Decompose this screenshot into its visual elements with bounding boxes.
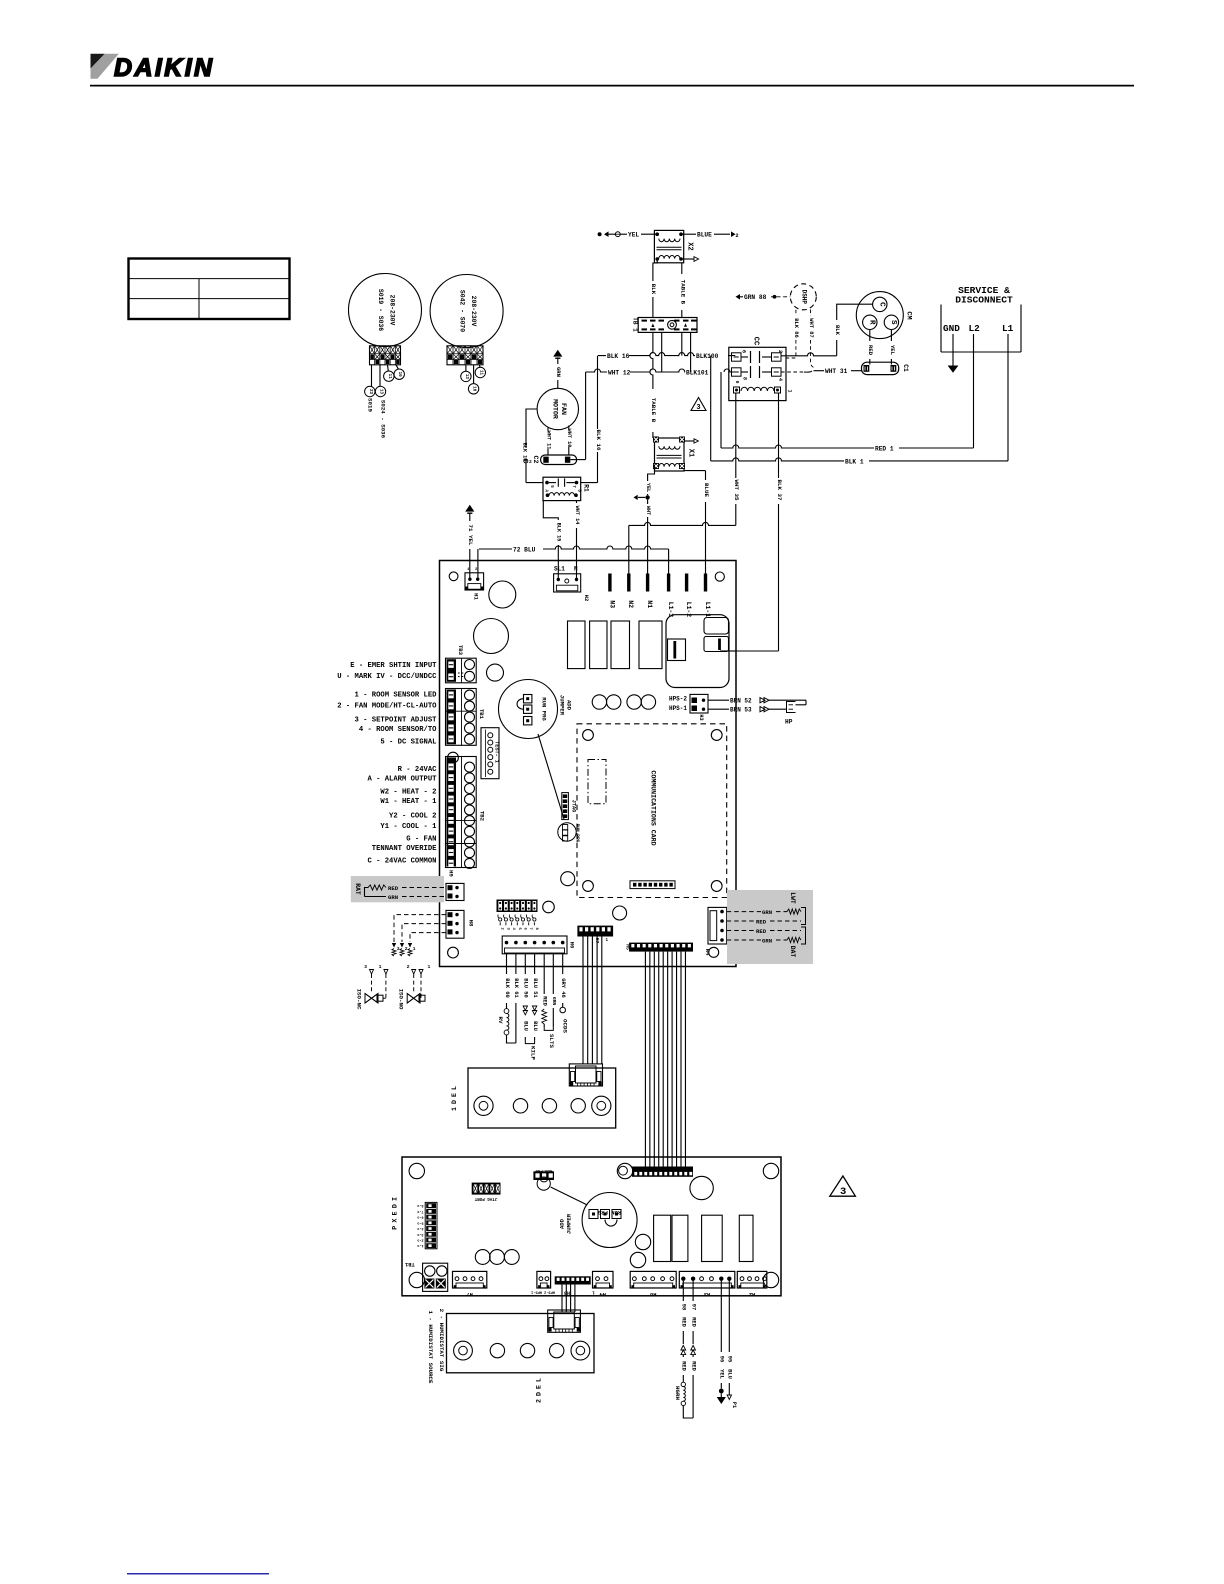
svg-text:1: 1 bbox=[428, 964, 431, 970]
H6 wire 7 GRY 46 to OCDS bbox=[562, 954, 564, 974]
svg-text:GRN 88: GRN 88 bbox=[744, 294, 767, 301]
svg-text:X2: X2 bbox=[686, 242, 694, 250]
connector H5 ribbon header bbox=[629, 943, 693, 952]
svg-text:2-o: 2-o bbox=[417, 1238, 423, 1242]
H6 wire 2 BLK 61 bbox=[515, 954, 517, 974]
svg-text:6-o: 6-o bbox=[417, 1215, 423, 1219]
IDEXP connector H5 header bbox=[555, 1276, 591, 1284]
footer link line bbox=[127, 1573, 269, 1575]
LED1 lamp holes bbox=[474, 1096, 493, 1115]
svg-text:H2: H2 bbox=[749, 1291, 755, 1297]
svg-text:4: 4 bbox=[511, 928, 515, 931]
board large holes bbox=[489, 581, 516, 608]
pointer line to jumper bbox=[538, 734, 564, 819]
RUN PRG jumper (main board) bbox=[499, 680, 558, 739]
communications card dashed outline bbox=[577, 724, 727, 898]
svg-text:DSHP: DSHP bbox=[800, 290, 807, 305]
relay K3 bbox=[611, 621, 630, 669]
svg-text:ISO-NO: ISO-NO bbox=[398, 989, 405, 1010]
svg-text:COMMUNICATIONS CARD: COMMUNICATIONS CARD bbox=[650, 770, 657, 845]
relay K1 bbox=[568, 621, 586, 669]
svg-text:SLTS: SLTS bbox=[548, 1034, 555, 1048]
connector H1 bbox=[465, 573, 484, 590]
svg-text:8-o: 8-o bbox=[417, 1203, 423, 1207]
compressor motor 208-230V S019-S036 bbox=[349, 274, 422, 347]
svg-text:BLK: BLK bbox=[650, 284, 657, 295]
svg-text:H8: H8 bbox=[650, 1291, 656, 1297]
svg-text:D: D bbox=[392, 1204, 399, 1208]
LED1 display board bbox=[468, 1068, 616, 1128]
compressor 2 pigtail wires and ring terminals 13,11,10 bbox=[465, 365, 467, 372]
svg-text:TABLE B: TABLE B bbox=[650, 398, 657, 423]
wire BLK 37 bbox=[778, 393, 780, 651]
svg-text:Y1 - COOL - 1: Y1 - COOL - 1 bbox=[380, 823, 437, 831]
svg-text:WHT 31: WHT 31 bbox=[825, 368, 848, 375]
svg-text:2: 2 bbox=[405, 946, 408, 952]
svg-text:B: B bbox=[576, 490, 580, 493]
header rule bbox=[90, 85, 1134, 87]
svg-text:E - EMER SHTIN INPUT: E - EMER SHTIN INPUT bbox=[350, 662, 437, 670]
svg-text:7: 7 bbox=[528, 928, 532, 931]
svg-text:LWT: LWT bbox=[789, 892, 796, 904]
IDEXP connector H4 bbox=[593, 1271, 614, 1288]
svg-text:3: 3 bbox=[505, 928, 509, 931]
svg-text:2 - FAN MODE/HT-CL-AUTO: 2 - FAN MODE/HT-CL-AUTO bbox=[337, 703, 437, 711]
svg-text:N2: N2 bbox=[627, 600, 634, 608]
svg-text:RED: RED bbox=[690, 1317, 696, 1327]
svg-text:H4: H4 bbox=[599, 1291, 606, 1297]
svg-text:H8: H8 bbox=[467, 920, 474, 927]
svg-text:7: 7 bbox=[571, 485, 575, 488]
wire TABLE B X2 to TB1 bbox=[681, 263, 683, 274]
svg-text:BLK101: BLK101 bbox=[686, 370, 709, 377]
svg-text:G - FAN: G - FAN bbox=[406, 835, 436, 843]
LWT / DAT highlighted sensors bbox=[727, 890, 813, 964]
compressor 2 terminal block bbox=[447, 346, 483, 365]
svg-text:RED: RED bbox=[756, 928, 767, 935]
IDEXP relay K1 bbox=[654, 1215, 671, 1261]
svg-text:DAT: DAT bbox=[789, 946, 796, 958]
wire BLK compressor motor C to contactor bbox=[837, 304, 873, 320]
svg-text:CC: CC bbox=[752, 337, 760, 345]
svg-text:HGRH: HGRH bbox=[674, 1386, 681, 1400]
svg-text:W2 - HEAT - 2: W2 - HEAT - 2 bbox=[380, 788, 436, 796]
svg-text:YEL: YEL bbox=[889, 345, 896, 356]
svg-text:HPS-2 HPS-1: HPS-2 HPS-1 bbox=[531, 1290, 555, 1294]
wire BLK X2 to TB1 bbox=[653, 259, 657, 281]
IDEXP JTAG PORT bbox=[472, 1183, 501, 1195]
svg-text:L: L bbox=[535, 1378, 542, 1382]
svg-text:BLK 61: BLK 61 bbox=[513, 978, 519, 997]
svg-text:8: 8 bbox=[742, 377, 748, 380]
svg-text:CM: CM bbox=[905, 311, 913, 319]
IDEXP connector H3 bbox=[679, 1271, 735, 1288]
svg-text:H5: H5 bbox=[625, 944, 631, 950]
svg-text:5: 5 bbox=[517, 928, 521, 931]
svg-text:E: E bbox=[535, 1385, 542, 1389]
wire BLK 1 bbox=[711, 458, 1008, 461]
IDEXP relay K2 bbox=[672, 1215, 688, 1261]
TB1 bottom wires bbox=[650, 332, 653, 438]
wire L2 to RED 1 bbox=[973, 334, 975, 448]
svg-text:H4: H4 bbox=[704, 949, 711, 956]
ISO-NO contact bbox=[412, 970, 416, 975]
svg-text:4 - ROOM SENSOR/TO: 4 - ROOM SENSOR/TO bbox=[359, 726, 437, 734]
R1 pin7 to BLK16 vertical bbox=[581, 482, 598, 484]
svg-text:1-o: 1-o bbox=[417, 1243, 423, 1247]
svg-text:BLK 16: BLK 16 bbox=[595, 430, 602, 451]
svg-text:W1 - HEAT - 1: W1 - HEAT - 1 bbox=[380, 798, 437, 806]
IDEXP connector HPS bbox=[537, 1271, 551, 1288]
fan motor bbox=[537, 388, 578, 429]
svg-text:C1: C1 bbox=[902, 364, 909, 372]
svg-text:U - MARK IV - DCC/UNDCC: U - MARK IV - DCC/UNDCC bbox=[337, 673, 437, 681]
svg-text:RV: RV bbox=[497, 1017, 504, 1024]
main control board outline bbox=[440, 561, 737, 967]
svg-text:RUN PRG: RUN PRG bbox=[575, 824, 580, 843]
svg-text:RED: RED bbox=[867, 345, 874, 356]
svg-text:3: 3 bbox=[397, 946, 400, 952]
IDEXP relay K3 bbox=[702, 1215, 723, 1261]
svg-text:H9: H9 bbox=[448, 870, 455, 877]
connector H6 pin header bbox=[497, 900, 538, 913]
svg-text:DAIKIN: DAIKIN bbox=[114, 54, 215, 82]
svg-text:WHT 35: WHT 35 bbox=[733, 480, 740, 501]
svg-text:97: 97 bbox=[690, 1304, 696, 1310]
svg-text:2: 2 bbox=[736, 233, 739, 239]
svg-text:X: X bbox=[392, 1219, 399, 1223]
svg-text:TABLE B: TABLE B bbox=[679, 280, 686, 305]
H6 wire 4 BLU 51 bbox=[534, 954, 536, 974]
svg-text:BLU: BLU bbox=[532, 1021, 538, 1031]
svg-text:HPS-2: HPS-2 bbox=[669, 696, 687, 703]
svg-text:L2: L2 bbox=[969, 323, 981, 334]
small warning triangle 3 bbox=[691, 398, 706, 411]
svg-text:10: 10 bbox=[397, 372, 401, 378]
svg-text:JTAG PORT: JTAG PORT bbox=[474, 1196, 497, 1200]
svg-text:72 BLU: 72 BLU bbox=[513, 546, 536, 553]
revision table bbox=[129, 259, 290, 320]
relay K2 bbox=[590, 621, 607, 669]
RAT sensor highlighted bbox=[351, 876, 444, 902]
svg-text:N3: N3 bbox=[608, 600, 615, 608]
IDEXP connector H2 bbox=[737, 1271, 767, 1288]
connector H6 bbox=[502, 936, 567, 954]
transformer X2 bbox=[654, 230, 683, 262]
svg-text:23: 23 bbox=[368, 389, 372, 395]
warning triangle 3 bbox=[830, 1176, 856, 1196]
IDEXP left pin connector bbox=[425, 1202, 437, 1248]
svg-text:ISO-NC: ISO-NC bbox=[356, 989, 363, 1010]
svg-text:TB2: TB2 bbox=[479, 811, 486, 822]
wire WHT 31 to capacitor C1 bbox=[781, 371, 804, 373]
svg-text:3: 3 bbox=[364, 964, 367, 970]
compressor 1 terminal block bbox=[370, 346, 401, 365]
svg-text:HPS-1: HPS-1 bbox=[669, 705, 687, 712]
svg-text:R: R bbox=[867, 320, 875, 325]
svg-text:H3: H3 bbox=[698, 714, 704, 720]
svg-text:1: 1 bbox=[592, 1290, 595, 1294]
connector H4 bbox=[708, 907, 727, 944]
wire RED 97 bbox=[692, 1279, 694, 1301]
svg-text:L1: L1 bbox=[1002, 323, 1014, 334]
pressure switch DSHP bbox=[790, 284, 816, 310]
svg-text:JUMPER: JUMPER bbox=[566, 1213, 573, 1234]
H6 wire 3 BLU 50 bbox=[524, 954, 526, 974]
Daikin logo mark bbox=[91, 54, 105, 69]
comm card edge connector bbox=[630, 881, 675, 889]
svg-text:H6: H6 bbox=[569, 942, 576, 949]
svg-text:5 - DC SIGNAL: 5 - DC SIGNAL bbox=[380, 738, 436, 746]
wire BLK 16 rail bbox=[598, 353, 735, 356]
LED2 lamp holes bbox=[454, 1341, 473, 1360]
svg-text:I: I bbox=[392, 1197, 399, 1201]
wire RED R to C1 bbox=[869, 329, 871, 341]
ground symbol bbox=[952, 334, 954, 366]
line terminals N3 N2 N1 L1-3 L1-2 L1-1 bbox=[608, 574, 611, 592]
svg-text:N: N bbox=[574, 566, 578, 573]
wire 72 BLU rail bbox=[479, 546, 669, 549]
svg-text:BLK 16: BLK 16 bbox=[607, 353, 630, 360]
svg-text:BLU: BLU bbox=[727, 1369, 733, 1379]
svg-text:WHT 14: WHT 14 bbox=[574, 506, 580, 525]
svg-text:BLU 51: BLU 51 bbox=[532, 978, 538, 997]
arrow GRN 88 bbox=[736, 294, 741, 300]
svg-text:2: 2 bbox=[407, 964, 410, 970]
svg-text:98: 98 bbox=[681, 1304, 687, 1310]
svg-text:BLU 50: BLU 50 bbox=[523, 978, 529, 997]
LED2 connector bbox=[548, 1310, 581, 1332]
run capacitor C1 bbox=[862, 362, 899, 374]
H6 wire 6 GRN bbox=[552, 954, 554, 994]
svg-text:3: 3 bbox=[840, 1186, 846, 1198]
svg-text:S: S bbox=[889, 320, 897, 325]
wire BLK 16 vertical to R1 bbox=[597, 356, 599, 483]
svg-text:SL1: SL1 bbox=[554, 566, 565, 573]
svg-text:RUN PRG: RUN PRG bbox=[541, 697, 548, 721]
svg-text:S024 - S036: S024 - S036 bbox=[380, 400, 387, 439]
svg-text:GRN: GRN bbox=[555, 367, 562, 377]
svg-text:A: A bbox=[543, 490, 547, 493]
IDEXP relay K4 bbox=[739, 1215, 753, 1261]
svg-text:R1: R1 bbox=[582, 484, 589, 492]
svg-text:GND: GND bbox=[943, 323, 960, 334]
wire C2 to WHT 12 bbox=[570, 459, 585, 461]
wire WHT 87 dashed bbox=[810, 310, 812, 317]
svg-text:208-230V: 208-230V bbox=[389, 295, 396, 326]
wire BLK 13 fan to R1 bbox=[526, 409, 537, 448]
svg-text:2: 2 bbox=[500, 928, 504, 931]
svg-text:E: E bbox=[451, 1093, 458, 1097]
svg-text:P1: P1 bbox=[731, 1402, 737, 1408]
svg-text:1: 1 bbox=[379, 964, 382, 970]
svg-text:E: E bbox=[392, 1211, 399, 1215]
svg-text:2 - HUMIDISTAT SIG: 2 - HUMIDISTAT SIG bbox=[438, 1309, 445, 1372]
compressor motor 208-230V S042-S070 bbox=[430, 275, 503, 348]
board mounting holes bbox=[449, 572, 458, 581]
relay R1 bbox=[543, 477, 581, 500]
ribbon cable to IDEXP bbox=[644, 952, 646, 1167]
wire YEL 96 bbox=[720, 1279, 722, 1352]
svg-text:FAN: FAN bbox=[560, 403, 567, 415]
svg-text:7-o: 7-o bbox=[417, 1209, 423, 1213]
wire YEL S to C1 bbox=[890, 329, 892, 341]
svg-text:5: 5 bbox=[549, 485, 553, 488]
svg-text:YEL: YEL bbox=[645, 483, 651, 492]
svg-text:TB1: TB1 bbox=[478, 709, 485, 720]
svg-text:H1: H1 bbox=[473, 593, 480, 600]
svg-text:BLK 37: BLK 37 bbox=[776, 480, 783, 501]
transformer X1 bbox=[655, 438, 685, 471]
run capacitor C2 bbox=[541, 455, 577, 465]
compressor 1 pigtail wires and ring terminals 23,13,11,10 bbox=[371, 365, 373, 387]
svg-text:6: 6 bbox=[523, 928, 527, 931]
svg-text:96: 96 bbox=[719, 1356, 725, 1362]
svg-text:BLK 86: BLK 86 bbox=[793, 318, 799, 337]
IDEXP connector H8 bbox=[630, 1271, 676, 1288]
svg-text:H7: H7 bbox=[466, 1291, 472, 1297]
svg-text:0: 0 bbox=[734, 381, 740, 384]
R1 pin5 from BLK13 bbox=[526, 482, 543, 484]
svg-text:1 - HUMIDISTAT SOURCE: 1 - HUMIDISTAT SOURCE bbox=[427, 1310, 434, 1384]
svg-text:11: 11 bbox=[387, 374, 391, 380]
svg-text:D: D bbox=[535, 1392, 542, 1396]
svg-text:KILP: KILP bbox=[530, 1046, 537, 1060]
wire WHT 11 bbox=[547, 427, 549, 431]
svg-text:WHT 10: WHT 10 bbox=[566, 429, 572, 448]
RAT connector 2pin bbox=[446, 883, 464, 900]
svg-text:BLK 15: BLK 15 bbox=[556, 523, 562, 542]
svg-text:BLK: BLK bbox=[834, 325, 841, 336]
svg-text:DISCONNECT: DISCONNECT bbox=[955, 295, 1013, 306]
condenser motor CM bbox=[856, 292, 903, 339]
IDEXP mounting holes bbox=[409, 1163, 424, 1178]
svg-text:4: 4 bbox=[777, 378, 783, 381]
svg-text:GRN: GRN bbox=[388, 894, 398, 901]
svg-text:C2: C2 bbox=[532, 456, 539, 464]
svg-text:L: L bbox=[451, 1086, 458, 1090]
svg-text:3: 3 bbox=[696, 404, 700, 412]
svg-text:BLU: BLU bbox=[523, 1021, 529, 1031]
wire WHT 12 rail bbox=[586, 369, 736, 372]
svg-text:WHT 87: WHT 87 bbox=[808, 318, 814, 337]
wire YEL/WHT X1 to N1 bbox=[648, 465, 655, 482]
svg-text:TB3: TB3 bbox=[457, 645, 464, 656]
rail to N2 bbox=[629, 522, 736, 525]
svg-text:BLK100: BLK100 bbox=[696, 353, 719, 360]
svg-text:71 YEL: 71 YEL bbox=[467, 525, 474, 546]
svg-text:N1: N1 bbox=[646, 600, 653, 608]
svg-text:6: 6 bbox=[741, 350, 747, 353]
svg-text:D: D bbox=[451, 1100, 458, 1104]
ground above fan motor bbox=[553, 350, 562, 357]
svg-text:RED: RED bbox=[690, 1361, 696, 1371]
wire WHT 12 vertical to C2 bbox=[585, 372, 587, 460]
svg-text:Y2 - COOL 2: Y2 - COOL 2 bbox=[389, 813, 436, 821]
wire RED 98 to HGRH bbox=[682, 1279, 684, 1301]
svg-text:RED 1: RED 1 bbox=[875, 445, 894, 452]
H6 wire 5 RED to SLTS bbox=[543, 954, 545, 994]
HP plug bbox=[787, 702, 796, 713]
svg-text:S019 - S036: S019 - S036 bbox=[377, 289, 384, 331]
svg-text:MOTOR: MOTOR bbox=[552, 399, 559, 419]
svg-text:1: 1 bbox=[606, 939, 609, 943]
svg-text:GRN: GRN bbox=[762, 909, 772, 916]
svg-text:1: 1 bbox=[787, 389, 793, 392]
svg-text:WHT 12: WHT 12 bbox=[608, 369, 631, 376]
svg-text:RED: RED bbox=[542, 996, 548, 1006]
svg-text:13: 13 bbox=[379, 389, 383, 395]
svg-text:RED: RED bbox=[388, 885, 399, 892]
svg-text:WHT: WHT bbox=[645, 506, 651, 515]
H8 dashed wires to sensors bbox=[394, 915, 446, 942]
svg-text:RED: RED bbox=[681, 1361, 687, 1371]
svg-text:BLK 60: BLK 60 bbox=[504, 978, 510, 997]
IDEXP connector H7 bbox=[453, 1271, 487, 1288]
svg-text:RAT: RAT bbox=[354, 883, 361, 895]
svg-text:GRN: GRN bbox=[551, 997, 557, 1006]
svg-text:BRN 52: BRN 52 bbox=[730, 698, 752, 705]
svg-text:JUMPER: JUMPER bbox=[559, 695, 566, 716]
svg-text:RED: RED bbox=[756, 918, 767, 925]
wire 71 YEL bbox=[465, 505, 474, 512]
wire BLK 86 dashed bbox=[795, 310, 797, 316]
svg-text:TB 1: TB 1 bbox=[632, 317, 639, 332]
svg-text:208-230V: 208-230V bbox=[470, 296, 477, 327]
svg-text:R - 24VAC: R - 24VAC bbox=[398, 766, 438, 774]
wire L1 to BLK 1 bbox=[1007, 334, 1009, 461]
connector TEST-1 bbox=[481, 728, 499, 779]
svg-text:2: 2 bbox=[777, 350, 783, 353]
terminal strip TB1 bbox=[638, 318, 697, 333]
wire from power block to BLK37 bbox=[721, 650, 736, 652]
svg-text:1: 1 bbox=[413, 946, 416, 952]
svg-text:2: 2 bbox=[535, 1399, 542, 1403]
wires H5 to LED2 bbox=[561, 1285, 563, 1313]
svg-text:1 - ROOM SENSOR LED: 1 - ROOM SENSOR LED bbox=[355, 691, 438, 699]
svg-text:BLUE: BLUE bbox=[703, 483, 710, 497]
svg-text:C - 24VAC COMMON: C - 24VAC COMMON bbox=[367, 858, 436, 866]
svg-text:OCDS: OCDS bbox=[562, 1019, 569, 1033]
svg-text:3 - SETPOINT ADJUST: 3 - SETPOINT ADJUST bbox=[355, 716, 438, 724]
svg-text:5-o: 5-o bbox=[417, 1220, 423, 1224]
svg-text:TEST- 1: TEST- 1 bbox=[493, 741, 499, 763]
wire RED 1 bbox=[721, 445, 974, 448]
svg-text:BRN 53: BRN 53 bbox=[730, 707, 752, 714]
wire BLK 15 bbox=[543, 501, 558, 520]
svg-text:P: P bbox=[392, 1226, 399, 1230]
svg-text:A - ALARM OUTPUT: A - ALARM OUTPUT bbox=[367, 775, 437, 783]
power input block bbox=[666, 615, 729, 688]
connector H8 bbox=[446, 910, 464, 938]
connector H7 pin header bbox=[577, 926, 613, 937]
svg-text:YEL: YEL bbox=[628, 232, 639, 239]
svg-text:TB1: TB1 bbox=[405, 1261, 415, 1267]
ISO-NC contact bbox=[370, 970, 374, 975]
svg-text:2: 2 bbox=[529, 459, 532, 465]
svg-text:JTAG: JTAG bbox=[571, 800, 577, 812]
small RUN PRG jumper bbox=[558, 823, 576, 841]
wire BLUE out of X2 to point 2 bbox=[681, 233, 696, 235]
X2 secondary tap stub bbox=[681, 258, 694, 260]
svg-text:11: 11 bbox=[478, 370, 482, 376]
svg-text:BLUE: BLUE bbox=[697, 232, 712, 239]
IDEXP ribbon connector H1 bbox=[632, 1167, 693, 1177]
svg-text:GRN: GRN bbox=[762, 937, 772, 944]
wire WHT 35 bbox=[735, 393, 737, 525]
svg-text:ADD: ADD bbox=[559, 1218, 566, 1229]
svg-text:BLK 13: BLK 13 bbox=[521, 443, 527, 462]
